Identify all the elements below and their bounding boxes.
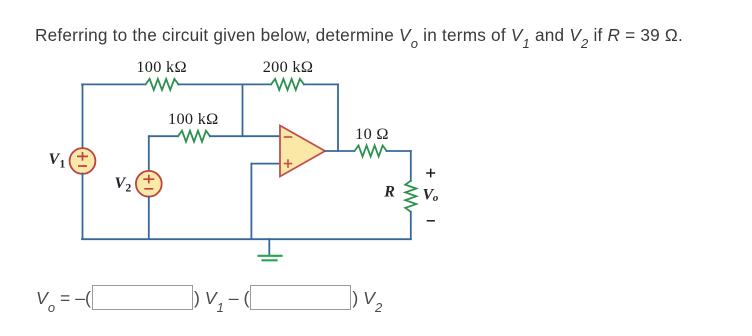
formula row <box>36 287 382 312</box>
title text <box>35 25 683 46</box>
ground stem <box>268 239 270 255</box>
ground bars <box>259 255 282 257</box>
svg-text:2: 2 <box>126 182 132 194</box>
resistor 100 kOhm middle zigzag <box>178 131 210 142</box>
label - for Vo <box>427 220 435 222</box>
source V1 <box>70 148 96 174</box>
wire: feedback vertical from top rail down to op-amp output node <box>337 84 339 151</box>
svg-text:100 kΩ: 100 kΩ <box>168 109 219 128</box>
svg-text:o: o <box>433 192 439 204</box>
wire: middle rail to op-amp inverting input <box>210 135 280 137</box>
svg-text:200 kΩ: 200 kΩ <box>263 57 314 76</box>
wire: non-inverting input horizontal <box>251 163 280 165</box>
wire: left vertical below V1 to bottom rail <box>82 174 84 240</box>
wire: junction vertical from top rail to middle rail <box>242 84 244 136</box>
resistor 100 kOhm top-left zigzag <box>146 79 179 90</box>
wire: V2 branch vertical above source <box>148 136 150 171</box>
svg-text:1: 1 <box>60 159 66 171</box>
source V2 <box>136 171 162 197</box>
op-amp U1 <box>280 126 325 177</box>
wire: top rail middle segment <box>179 83 272 85</box>
wire: V2 branch vertical below source to bottom rail <box>148 196 150 239</box>
wire: middle rail from V2 node to 100k <box>149 135 178 137</box>
wire: right vertical above R <box>410 151 412 181</box>
wire: non-inverting vertical down to bottom rail <box>250 164 252 239</box>
wire: output lead <box>325 150 355 152</box>
wire: left vertical above V1 <box>82 84 84 148</box>
resistor 200 kOhm zigzag <box>271 79 304 90</box>
wire: top rail right segment <box>304 83 338 85</box>
svg-text:100 kΩ: 100 kΩ <box>136 57 187 76</box>
wire: bottom rail <box>82 238 411 240</box>
svg-text:R: R <box>383 184 395 201</box>
resistor 10 Ohm zigzag <box>355 146 387 157</box>
wire: output to right corner <box>387 150 411 152</box>
wire: right vertical below R to bottom rail <box>410 212 412 239</box>
label + for Vo <box>426 169 435 178</box>
svg-text:10 Ω: 10 Ω <box>355 124 389 143</box>
wire: top rail left segment from left corner to R 100k top <box>82 83 146 85</box>
resistor R vertical zigzag <box>405 181 416 212</box>
